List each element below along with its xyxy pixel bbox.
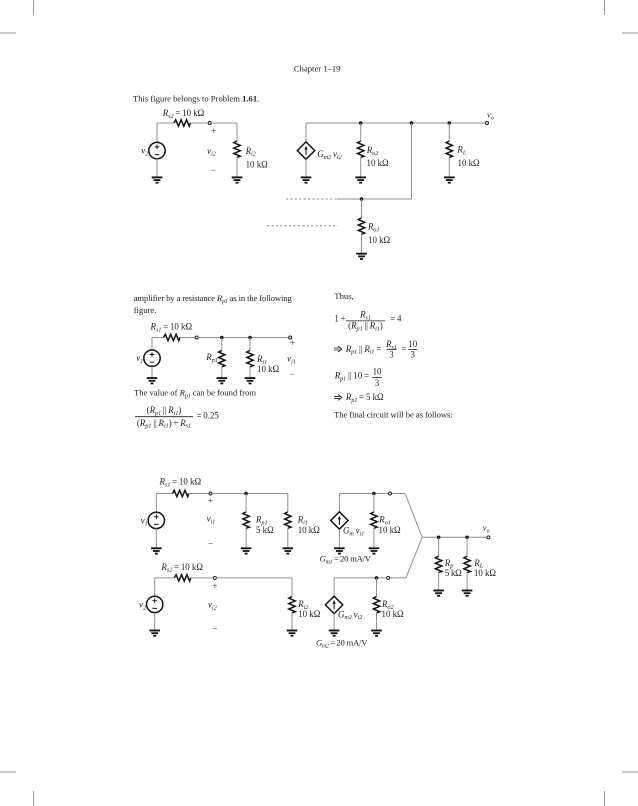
svg-text:figure.: figure. — [134, 305, 157, 315]
svg-text:Rs1 = 10 kΩ: Rs1 = 10 kΩ — [159, 477, 202, 489]
svg-text:Rp1 || Ri1 =: Rp1 || Ri1 = — [345, 344, 382, 356]
svg-text:The final circuit will be as f: The final circuit will be as follows: — [334, 410, 453, 420]
svg-text:10 kΩ: 10 kΩ — [474, 568, 497, 578]
svg-text:amplifier by a resistance Rp1: amplifier by a resistance Rp1 as in the … — [134, 293, 293, 305]
svg-text:Gm1 = 20 mA/V: Gm1 = 20 mA/V — [320, 554, 372, 566]
svg-text:+: + — [212, 581, 217, 591]
svg-text:1 +: 1 + — [334, 313, 345, 323]
svg-text:10 kΩ: 10 kΩ — [382, 609, 405, 619]
svg-text:3: 3 — [375, 378, 380, 388]
svg-text:−: − — [208, 539, 213, 549]
svg-text:(Rp1 || Ri1): (Rp1 || Ri1) — [147, 405, 182, 417]
svg-text:+: + — [290, 338, 295, 348]
svg-text:vo: vo — [487, 110, 494, 122]
svg-text:This figure belongs to Problem: This figure belongs to Problem 1.61. — [133, 94, 259, 104]
svg-text:(Rp1 || Ri1): (Rp1 || Ri1) — [348, 320, 383, 332]
svg-text:v1: v1 — [141, 515, 148, 527]
svg-text:The value of Rp1 can be found: The value of Rp1 can be found from — [134, 388, 256, 400]
svg-text:vi2: vi2 — [208, 600, 217, 612]
svg-text:Gm2 vi2: Gm2 vi2 — [338, 609, 362, 621]
svg-text:Gm2 vi2: Gm2 vi2 — [317, 149, 341, 161]
svg-text:3: 3 — [410, 349, 415, 359]
svg-text:Rs2 = 10 kΩ: Rs2 = 10 kΩ — [162, 108, 205, 120]
svg-text:Gm vi1: Gm vi1 — [343, 525, 364, 537]
svg-text:Gm2 = 20 mA/V: Gm2 = 20 mA/V — [316, 638, 368, 650]
svg-text:vo: vo — [483, 523, 490, 535]
svg-text:Ro2: Ro2 — [366, 145, 379, 157]
svg-text:10 kΩ: 10 kΩ — [298, 609, 321, 619]
svg-text:10 kΩ: 10 kΩ — [368, 235, 391, 245]
svg-text:Thus,: Thus, — [334, 291, 353, 301]
svg-text:10 kΩ: 10 kΩ — [246, 159, 269, 169]
svg-text:5 kΩ: 5 kΩ — [256, 525, 274, 535]
svg-text:Rp1: Rp1 — [205, 352, 218, 364]
svg-text:Rs1 = 10 kΩ: Rs1 = 10 kΩ — [150, 322, 193, 334]
svg-text:10 kΩ: 10 kΩ — [379, 525, 402, 535]
svg-text:10 kΩ: 10 kΩ — [298, 525, 321, 535]
svg-text:Ri2: Ri2 — [245, 146, 256, 158]
svg-text:(Rp1 || Ri1) + Rs1: (Rp1 || Ri1) + Rs1 — [137, 418, 191, 430]
svg-text:3: 3 — [389, 349, 394, 359]
svg-text:vi1: vi1 — [287, 354, 296, 366]
svg-text:+: + — [211, 126, 216, 136]
svg-text:= 4: = 4 — [390, 313, 402, 323]
svg-text:5 kΩ: 5 kΩ — [445, 568, 462, 578]
svg-text:v1: v1 — [136, 353, 143, 365]
svg-text:10 kΩ: 10 kΩ — [367, 158, 390, 168]
svg-text:−: − — [212, 623, 217, 633]
svg-text:=: = — [401, 344, 406, 354]
svg-text:10 kΩ: 10 kΩ — [458, 158, 481, 168]
svg-text:Rp1 || 10 =: Rp1 || 10 = — [334, 371, 369, 383]
svg-text:Rp1 = 5 kΩ: Rp1 = 5 kΩ — [345, 392, 384, 404]
svg-text:Chapter 1–19: Chapter 1–19 — [294, 64, 341, 74]
svg-text:v2: v2 — [141, 145, 148, 157]
svg-text:10: 10 — [408, 339, 417, 349]
svg-text:10 kΩ: 10 kΩ — [257, 364, 280, 374]
svg-text:vi1: vi1 — [207, 514, 216, 526]
svg-text:10: 10 — [373, 366, 382, 376]
svg-text:vi2: vi2 — [207, 146, 216, 158]
svg-text:RL: RL — [456, 145, 466, 157]
svg-text:−: − — [290, 369, 295, 379]
svg-text:−: − — [211, 165, 216, 175]
svg-text:v2: v2 — [139, 599, 146, 611]
svg-text:Rs2 = 10 kΩ: Rs2 = 10 kΩ — [160, 562, 203, 574]
svg-text:+: + — [208, 496, 213, 506]
svg-text:= 0.25: = 0.25 — [197, 410, 220, 420]
svg-text:Ro1: Ro1 — [367, 222, 380, 234]
